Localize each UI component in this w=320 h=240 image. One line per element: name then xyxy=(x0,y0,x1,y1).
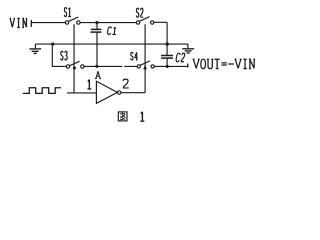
pole wire S2-S4-inverter xyxy=(144,24,146,93)
wire inverter output to S4 pole xyxy=(121,92,145,94)
label S2 xyxy=(136,8,143,17)
wire S3 to S4 middle rail xyxy=(84,65,137,67)
wire corner down to rail xyxy=(166,22,168,44)
label A xyxy=(95,71,101,78)
switch S3 xyxy=(66,61,84,68)
wire ground junction down to S3 xyxy=(52,44,66,66)
label S3 xyxy=(61,51,68,60)
wire S2 to corner xyxy=(154,21,167,23)
caption figure box glyph xyxy=(118,112,127,121)
node C2 top junction xyxy=(166,42,169,45)
label S1 xyxy=(64,8,71,17)
label VIN xyxy=(10,18,28,27)
switch S4 xyxy=(137,61,154,68)
node C1 top junction xyxy=(95,21,98,24)
pole wire S1-S3-clock xyxy=(73,24,75,93)
clock source square wave xyxy=(23,88,61,94)
label C2 xyxy=(176,53,185,62)
node S3 pole junction xyxy=(73,66,76,69)
ground symbol left xyxy=(30,44,42,53)
VIN terminal tick xyxy=(30,20,32,27)
capacitor C1 xyxy=(91,23,102,66)
node ground-left junction xyxy=(51,42,54,45)
caption number 1 xyxy=(140,112,144,121)
capacitor C2 xyxy=(161,44,173,66)
ground symbol right xyxy=(182,49,194,53)
pin 1 label xyxy=(87,80,91,89)
switch S1 xyxy=(65,17,80,24)
wire S4 to VOUT xyxy=(154,65,188,67)
label S4 xyxy=(131,52,138,60)
node C1 bottom junction xyxy=(95,65,98,68)
VOUT terminal tick xyxy=(187,64,189,68)
wire clock to inverter input xyxy=(67,92,97,94)
wire rail corner down right xyxy=(187,44,189,48)
label C1 xyxy=(108,27,116,34)
label VOUT=-VIN xyxy=(193,59,256,68)
arrow at S4 pole xyxy=(143,65,147,70)
wire S1 to S2 top rail xyxy=(80,22,136,24)
op-amp A inverter xyxy=(96,81,121,103)
ground rail wire xyxy=(35,43,188,45)
node C2 bottom junction xyxy=(166,65,169,68)
switch S2 xyxy=(136,17,154,25)
pin 2 label xyxy=(123,79,129,88)
wire VIN to S1 xyxy=(31,22,65,24)
